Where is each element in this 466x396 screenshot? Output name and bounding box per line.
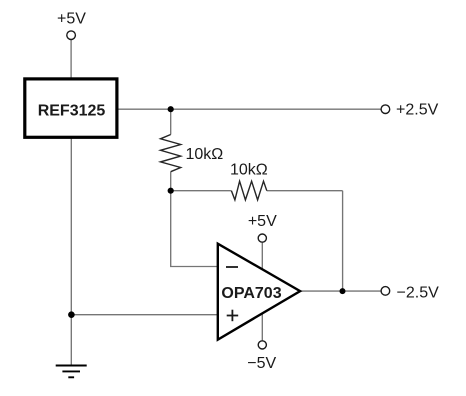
svg-text:OPA703: OPA703 [221,285,281,302]
svg-text:+5V: +5V [57,11,86,28]
svg-text:+2.5V: +2.5V [396,102,439,119]
svg-text:10kΩ: 10kΩ [230,162,268,179]
svg-text:10kΩ: 10kΩ [186,146,224,163]
svg-text:REF3125: REF3125 [38,102,106,119]
svg-text:−5V: −5V [247,355,276,372]
svg-text:+5V: +5V [248,213,277,230]
svg-text:−2.5V: −2.5V [397,284,440,301]
